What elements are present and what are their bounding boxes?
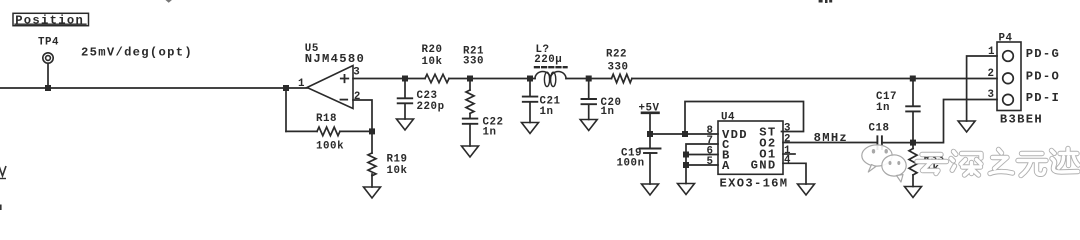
svg-text:R20: R20 [422, 44, 443, 56]
svg-text:1n: 1n [483, 127, 497, 139]
svg-text:2: 2 [354, 91, 361, 103]
svg-text:GND: GND [751, 159, 777, 173]
svg-text:1n: 1n [540, 106, 554, 118]
svg-text:8MHz: 8MHz [814, 131, 848, 145]
svg-text:25mV/deg(opt): 25mV/deg(opt) [81, 45, 193, 59]
svg-text:10k: 10k [422, 56, 443, 68]
svg-text:+5V: +5V [639, 102, 660, 114]
svg-text:1n: 1n [876, 102, 890, 114]
svg-text:1n: 1n [601, 106, 615, 118]
svg-text:A: A [722, 159, 731, 173]
svg-text:2: 2 [784, 133, 791, 145]
svg-text:B3BEH: B3BEH [1000, 112, 1043, 126]
svg-text:Position: Position [15, 14, 84, 28]
svg-text:3: 3 [987, 89, 994, 101]
svg-text:3: 3 [353, 67, 360, 79]
svg-text:1: 1 [298, 78, 305, 90]
svg-text:330: 330 [608, 62, 629, 74]
svg-text:220µ: 220µ [534, 54, 562, 66]
svg-text:PD-G: PD-G [1026, 47, 1060, 61]
svg-text:EXO3-16M: EXO3-16M [720, 177, 789, 191]
svg-text:4: 4 [784, 154, 791, 166]
svg-text:330: 330 [463, 55, 484, 67]
svg-text:220p: 220p [417, 101, 445, 113]
svg-text:100k: 100k [316, 141, 344, 153]
svg-text:PD-I: PD-I [1026, 91, 1060, 105]
svg-text:R22: R22 [606, 49, 627, 61]
svg-text:2: 2 [987, 68, 994, 80]
svg-text:PD-O: PD-O [1026, 70, 1060, 84]
svg-text:R18: R18 [316, 113, 337, 125]
svg-text:5: 5 [706, 156, 713, 168]
svg-text:P4: P4 [999, 33, 1013, 45]
svg-text:U4: U4 [721, 111, 735, 123]
svg-text:10k: 10k [387, 165, 408, 177]
svg-text:C18: C18 [869, 122, 890, 134]
svg-text:TP4: TP4 [38, 36, 59, 48]
svg-text:1: 1 [988, 46, 995, 58]
svg-text:100n: 100n [617, 158, 645, 170]
svg-text:R19: R19 [387, 154, 408, 166]
svg-text:NJM4580: NJM4580 [305, 52, 365, 66]
